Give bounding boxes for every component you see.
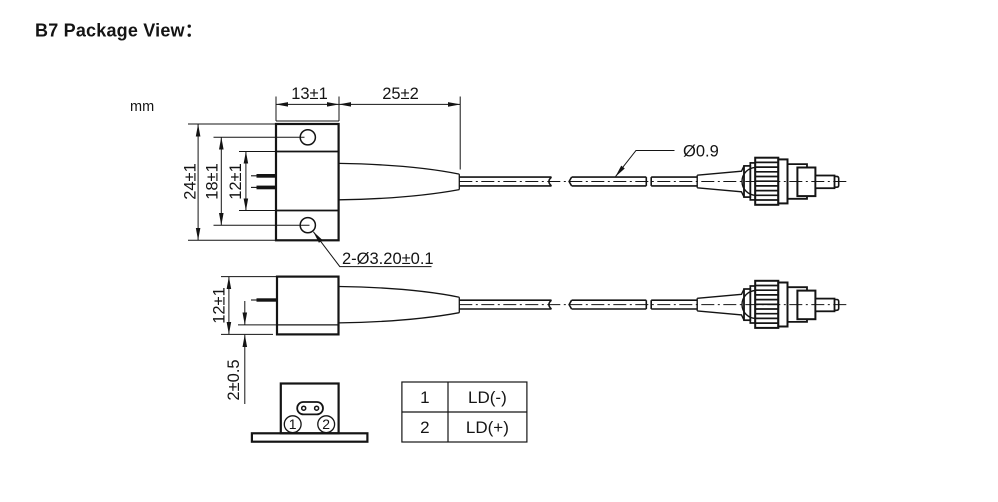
svg-text:LD(-): LD(-)	[468, 388, 507, 407]
dim 24±1 extension lines	[188, 124, 275, 240]
pigtail side view	[339, 281, 846, 328]
table frame	[402, 382, 527, 442]
pigtail top view	[339, 158, 846, 205]
dim 12±1 line	[245, 152, 247, 211]
front base flange	[252, 433, 368, 441]
leader Ø0.9	[616, 151, 675, 177]
dim 25±2 line	[339, 103, 460, 105]
dim 12±1 extension lines	[221, 277, 276, 335]
svg-text:1: 1	[289, 416, 297, 432]
flange separator lines	[276, 152, 339, 211]
svg-text:24±1: 24±1	[182, 163, 200, 200]
hole leader 2-Ø3.20	[313, 232, 431, 267]
svg-text:2-Ø3.20±0.1: 2-Ø3.20±0.1	[342, 250, 434, 268]
svg-text:12±1: 12±1	[211, 287, 229, 324]
pin slot (stadium)	[297, 402, 323, 414]
package body (top view)	[276, 124, 339, 240]
svg-text:1: 1	[420, 388, 429, 407]
svg-text:mm: mm	[130, 99, 154, 115]
svg-text:LD(+): LD(+)	[466, 418, 509, 437]
table column line	[447, 382, 449, 442]
base flange line	[277, 324, 339, 326]
dimensions of top view	[188, 97, 675, 267]
pin 1 dot	[302, 406, 306, 410]
dim 12±1 extension lines	[239, 152, 276, 211]
svg-text:B7 Package View：: B7 Package View：	[35, 21, 203, 41]
dim 13±1 line	[276, 103, 339, 105]
svg-text:12±1: 12±1	[227, 163, 245, 200]
mounting hole bottom	[300, 218, 315, 233]
mounting hole top	[300, 130, 315, 145]
dim 24±1 line	[197, 124, 199, 240]
svg-text:25±2: 25±2	[382, 85, 419, 103]
dim 13±1 extension lines	[276, 97, 460, 170]
package body (side view)	[277, 277, 339, 335]
pin (side view)	[251, 299, 257, 301]
dim 18±1 extension lines	[214, 137, 310, 225]
dim 2±0.5 arrows	[244, 301, 246, 325]
dim 2±0.5 extension line	[238, 324, 277, 326]
dimensions of side view	[221, 277, 277, 404]
pin 2	[251, 186, 257, 188]
pin 2 dot	[315, 406, 319, 410]
package lid edge line	[276, 120, 339, 122]
table row line	[402, 411, 527, 413]
circled 1	[284, 416, 301, 433]
svg-text:2: 2	[420, 418, 429, 437]
svg-text:13±1: 13±1	[291, 85, 328, 103]
dim 18±1 line	[220, 137, 222, 225]
svg-text:2±0.5: 2±0.5	[225, 359, 243, 400]
circled 2	[318, 416, 335, 433]
dim 12±1 line	[228, 277, 230, 334]
svg-text:18±1: 18±1	[204, 163, 222, 200]
pin 1	[251, 175, 257, 177]
svg-text:2: 2	[322, 416, 330, 432]
svg-text:Ø0.9: Ø0.9	[683, 143, 719, 161]
front body	[281, 384, 339, 434]
